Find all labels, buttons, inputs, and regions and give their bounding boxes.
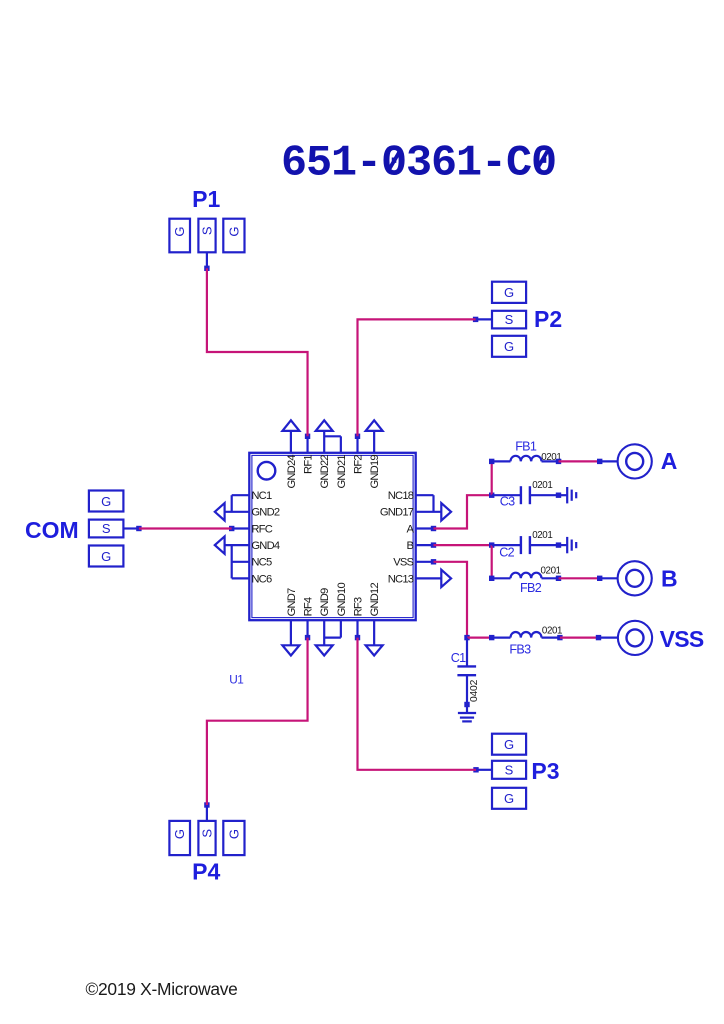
pin GND22	[319, 431, 331, 489]
svg-text:B: B	[407, 540, 414, 552]
svg-text:C1: C1	[451, 651, 466, 665]
value 0201 of FB2	[541, 566, 561, 577]
svg-text:GND17: GND17	[380, 507, 414, 519]
svg-text:RF2: RF2	[352, 455, 364, 474]
label FB1	[515, 439, 537, 453]
port P4 stub	[206, 805, 208, 821]
label FB3	[509, 643, 531, 657]
ground arrow GND17	[441, 503, 451, 520]
pin RFC	[232, 523, 273, 535]
svg-text:G: G	[504, 791, 514, 806]
node FB1/C3 junction	[489, 493, 494, 498]
pin NC1	[232, 490, 272, 512]
junction FB3 right	[557, 635, 562, 640]
port P2 stub	[476, 318, 492, 320]
value 0201 of C2	[532, 530, 552, 541]
capacitor C1	[457, 666, 476, 704]
svg-text:B: B	[661, 565, 678, 591]
port label COM	[25, 517, 79, 543]
svg-text:FB2: FB2	[520, 581, 542, 595]
coax connector A	[618, 444, 652, 478]
svg-text:G: G	[227, 227, 242, 237]
pin GND2	[225, 507, 280, 519]
port P3 ground pad G2	[492, 788, 526, 809]
svg-text:VSS: VSS	[393, 557, 413, 569]
svg-text:G: G	[504, 339, 514, 354]
junction FB2 right	[556, 576, 561, 581]
ground right of C2	[567, 537, 576, 553]
junction FB2 left	[489, 576, 494, 581]
svg-text:GND10: GND10	[336, 583, 348, 617]
pin RF2	[352, 436, 364, 474]
ground arrow GND4	[215, 536, 225, 553]
svg-text:FB1: FB1	[515, 439, 537, 453]
capacitor C2	[492, 536, 559, 554]
pin GND9	[319, 588, 331, 645]
svg-text:RF3: RF3	[352, 597, 364, 616]
junction at COM	[136, 526, 141, 531]
ferrite bead FB2	[492, 573, 559, 579]
junction at A connector	[597, 459, 602, 464]
svg-text:G: G	[101, 494, 111, 509]
wire FB1-A connector	[559, 460, 600, 462]
junction C1 bottom	[464, 702, 469, 707]
port P2 ground pad G2	[492, 336, 526, 357]
port COM ground pad G2	[89, 546, 124, 567]
ferrite bead FB1	[492, 456, 559, 462]
ground arrow NC13	[441, 570, 451, 587]
svg-text:P4: P4	[192, 859, 220, 885]
IC designator U1	[229, 672, 243, 686]
pin B	[407, 540, 434, 552]
net label VSS	[660, 626, 704, 652]
port label P4	[192, 859, 220, 885]
wire A-FB1/C3	[434, 495, 492, 528]
svg-text:NC6: NC6	[251, 573, 272, 585]
svg-text:G: G	[101, 549, 111, 564]
svg-text:NC13: NC13	[388, 573, 414, 585]
junction at P1	[204, 266, 209, 271]
wire C1-ground	[466, 705, 468, 714]
junction C2 right	[556, 542, 561, 547]
svg-text:GND12: GND12	[369, 583, 381, 617]
junction at RF2	[355, 434, 360, 439]
svg-text:P3: P3	[531, 758, 559, 784]
svg-text:©2019 X-Microwave: ©2019 X-Microwave	[86, 979, 238, 999]
slashed zero overlays	[390, 151, 548, 168]
port label P3	[531, 758, 559, 784]
svg-text:GND21: GND21	[336, 455, 348, 489]
wire RF4-P4	[207, 638, 308, 805]
junction C3 right	[556, 493, 561, 498]
port COM stub	[123, 527, 138, 529]
ground arrow GND2	[215, 503, 225, 520]
net label B	[661, 565, 678, 591]
svg-text:RF1: RF1	[302, 455, 314, 474]
title 651-0361-C0	[281, 140, 556, 189]
value 0402 of C1	[469, 679, 480, 702]
copyright note	[86, 979, 238, 999]
port P1 ground pad G2	[223, 219, 244, 253]
port P1 ground pad G	[169, 219, 190, 253]
svg-text:GND9: GND9	[319, 588, 331, 616]
port COM ground pad G	[89, 491, 124, 512]
net label A	[661, 448, 678, 474]
label C3	[500, 495, 515, 509]
junction at pin VSS	[431, 559, 436, 564]
svg-text:NC1: NC1	[251, 490, 272, 502]
pin VSS	[393, 557, 433, 569]
port P3 stub	[476, 769, 492, 771]
pin NC6	[232, 545, 272, 585]
pin RF4	[302, 597, 314, 638]
wire into B connector	[600, 577, 618, 579]
ground arrow GND22	[316, 420, 333, 431]
svg-text:FB3: FB3	[509, 643, 531, 657]
capacitor C3	[492, 486, 559, 504]
wire C3-ground	[559, 494, 568, 496]
junction at P4	[204, 802, 209, 807]
wire FB3-VSS connector	[560, 636, 599, 638]
pin GND12	[369, 583, 381, 646]
wire node to C1	[466, 638, 468, 667]
wire node to FB3	[467, 636, 492, 638]
svg-text:0201: 0201	[541, 566, 561, 577]
pin A	[407, 523, 434, 535]
port P2 signal pad S	[492, 311, 526, 329]
svg-text:G: G	[172, 829, 187, 839]
port COM signal pad S	[89, 520, 124, 538]
pin RF1	[302, 436, 314, 474]
pin GND21	[324, 436, 348, 488]
pin GND7	[286, 588, 298, 645]
pin GND4	[225, 540, 280, 552]
ferrite bead FB3	[492, 632, 560, 638]
port P1 signal pad S	[198, 219, 215, 253]
svg-text:651-0361-C0: 651-0361-C0	[281, 140, 556, 189]
port P4 ground pad G	[169, 821, 190, 855]
port P3 ground pad G	[492, 734, 526, 755]
svg-text:0201: 0201	[532, 530, 552, 541]
svg-text:G: G	[504, 285, 514, 300]
ground right of C3	[567, 487, 576, 503]
wire into A connector	[600, 460, 618, 462]
junction at pin A	[431, 526, 436, 531]
svg-text:S: S	[200, 829, 215, 838]
wire COM-RFC	[139, 527, 232, 529]
label C2	[499, 546, 514, 560]
junction at VSS connector	[596, 635, 601, 640]
IC U1 body	[249, 453, 415, 620]
svg-text:G: G	[504, 737, 514, 752]
port label P1	[192, 186, 220, 212]
svg-text:S: S	[505, 312, 514, 327]
coax connector B	[618, 561, 652, 595]
junction at RF1	[305, 434, 310, 439]
svg-text:0201: 0201	[532, 480, 552, 491]
value 0201 of FB3	[542, 625, 562, 636]
port label P2	[534, 306, 562, 332]
port P3 signal pad S	[492, 761, 526, 779]
pin NC13	[388, 573, 442, 585]
junction at B connector	[597, 576, 602, 581]
svg-text:COM: COM	[25, 517, 79, 543]
wire into VSS connector	[599, 636, 618, 638]
junction at RF3	[355, 635, 360, 640]
port P1 stub	[206, 252, 208, 268]
junction FB1 left	[489, 459, 494, 464]
svg-text:0201: 0201	[542, 625, 562, 636]
svg-text:S: S	[200, 226, 215, 235]
ground arrow GND7	[282, 645, 299, 655]
svg-text:GND19: GND19	[369, 455, 381, 489]
svg-text:GND22: GND22	[319, 455, 331, 489]
IC U1 pin-1 marker circle	[258, 462, 276, 480]
svg-text:NC18: NC18	[388, 490, 414, 502]
pin GND24	[286, 431, 298, 489]
junction FB1 right	[556, 459, 561, 464]
svg-text:GND2: GND2	[251, 507, 279, 519]
ground below C1	[458, 713, 476, 721]
pin GND10	[324, 583, 348, 638]
junction at RFC	[229, 526, 234, 531]
label FB2	[520, 581, 542, 595]
node C2/FB2 junction	[489, 542, 494, 547]
svg-text:0402: 0402	[469, 679, 480, 702]
wire C2-ground	[559, 544, 568, 546]
wire RF2-P2	[358, 319, 476, 436]
svg-text:S: S	[102, 521, 111, 536]
value 0201 of FB1	[541, 452, 561, 463]
pin NC18	[388, 490, 434, 512]
svg-text:NC5: NC5	[251, 557, 272, 569]
junction at P3	[473, 767, 478, 772]
pin NC5	[232, 557, 272, 569]
ground arrow GND24	[282, 420, 299, 431]
svg-text:G: G	[172, 227, 187, 237]
pin RF3	[352, 597, 364, 638]
ground arrow GND19	[366, 420, 383, 431]
pin GND17	[380, 507, 441, 519]
port P4 signal pad S	[198, 821, 215, 855]
node VSS junction	[464, 635, 469, 640]
svg-text:GND24: GND24	[286, 455, 298, 489]
svg-text:VSS: VSS	[660, 626, 704, 652]
pin GND19	[369, 431, 381, 489]
svg-text:C3: C3	[500, 495, 515, 509]
svg-text:C2: C2	[499, 546, 514, 560]
svg-text:RFC: RFC	[251, 523, 272, 535]
wire B-C2/FB2	[434, 544, 492, 546]
junction at P2	[473, 317, 478, 322]
svg-text:GND7: GND7	[286, 588, 298, 616]
wire FB2-B connector	[559, 577, 600, 579]
svg-text:RF4: RF4	[302, 597, 314, 616]
junction at pin B	[431, 542, 436, 547]
value 0201 of C3	[532, 480, 552, 491]
svg-text:P1: P1	[192, 186, 220, 212]
svg-text:A: A	[661, 448, 678, 474]
svg-text:U1: U1	[229, 672, 243, 686]
svg-text:P2: P2	[534, 306, 562, 332]
wire RF3-P3	[358, 638, 477, 770]
coax connector VSS	[618, 621, 652, 655]
svg-text:G: G	[227, 829, 242, 839]
wire node to FB1	[491, 461, 493, 495]
port P4 ground pad G2	[223, 821, 244, 855]
ground arrow GND12	[366, 645, 383, 655]
wire P1-RF1	[207, 268, 308, 436]
svg-text:S: S	[505, 762, 514, 777]
wire VSS-node	[434, 562, 468, 638]
label C1	[451, 651, 466, 665]
ground arrow GND9	[316, 645, 333, 655]
wire node to FB2	[491, 545, 493, 578]
junction at RF4	[305, 635, 310, 640]
port P2 ground pad G	[492, 282, 526, 303]
junction FB3 left	[489, 635, 494, 640]
svg-text:GND4: GND4	[251, 540, 279, 552]
